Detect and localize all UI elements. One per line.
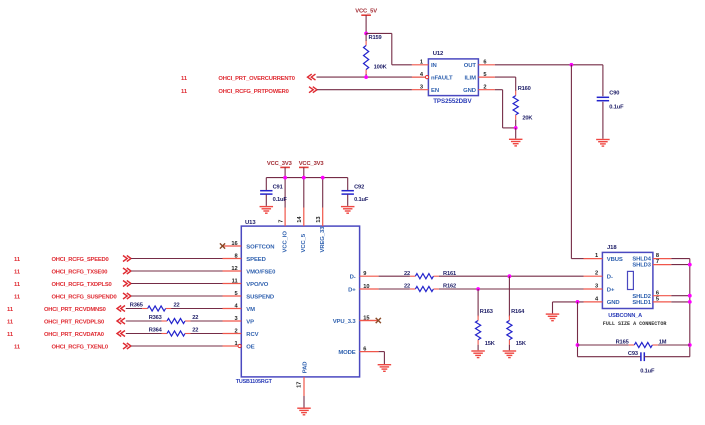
svg-text:R363: R363 (149, 315, 162, 321)
svg-text:10: 10 (363, 284, 369, 290)
svg-text:2: 2 (235, 329, 238, 335)
svg-text:11: 11 (14, 269, 21, 275)
svg-text:100K: 100K (374, 65, 388, 71)
svg-text:6: 6 (656, 290, 659, 296)
svg-text:FULL SIZE A CONNECTOR: FULL SIZE A CONNECTOR (603, 321, 668, 327)
svg-text:1: 1 (420, 60, 423, 66)
svg-text:5: 5 (656, 297, 659, 303)
svg-text:D-: D- (350, 275, 356, 281)
svg-text:5: 5 (235, 291, 238, 297)
svg-text:3: 3 (595, 283, 598, 289)
svg-text:U13: U13 (245, 220, 256, 226)
svg-text:22: 22 (404, 271, 410, 277)
svg-text:OE: OE (246, 344, 254, 350)
svg-text:12: 12 (231, 266, 237, 272)
svg-text:2: 2 (483, 85, 486, 91)
svg-text:11: 11 (14, 294, 21, 300)
svg-text:11: 11 (232, 279, 238, 285)
svg-text:OHCI_PRT_RCVDMNS0: OHCI_PRT_RCVDMNS0 (44, 307, 106, 313)
svg-text:15K: 15K (485, 341, 496, 347)
svg-text:11: 11 (7, 307, 14, 313)
svg-text:11: 11 (7, 319, 14, 325)
svg-text:OUT: OUT (464, 63, 477, 69)
svg-text:C91: C91 (273, 184, 283, 190)
svg-text:R162: R162 (443, 284, 456, 290)
svg-text:D+: D+ (348, 287, 356, 293)
svg-text:15K: 15K (516, 341, 527, 347)
svg-text:U12: U12 (433, 51, 444, 57)
svg-text:R164: R164 (511, 309, 525, 315)
svg-text:C93: C93 (628, 351, 638, 357)
svg-text:VREG_33: VREG_33 (320, 226, 326, 253)
svg-text:0.1uF: 0.1uF (640, 368, 655, 374)
svg-text:11: 11 (181, 89, 188, 95)
svg-text:VP: VP (246, 319, 254, 325)
svg-text:OHCI_RCFG_PRTPOWER0: OHCI_RCFG_PRTPOWER0 (218, 89, 288, 95)
svg-text:9: 9 (363, 271, 366, 277)
svg-text:22: 22 (174, 302, 180, 308)
svg-text:OHCI_RCFG_SUSPEND0: OHCI_RCFG_SUSPEND0 (52, 294, 117, 300)
svg-text:C92: C92 (354, 184, 364, 190)
svg-text:11: 11 (14, 344, 21, 350)
svg-text:nFAULT: nFAULT (431, 76, 453, 82)
svg-text:11: 11 (181, 76, 188, 82)
svg-text:ILIM: ILIM (465, 76, 477, 82)
svg-text:R364: R364 (149, 327, 163, 333)
svg-text:11: 11 (7, 332, 14, 338)
svg-text:VCC_IO: VCC_IO (282, 231, 288, 253)
svg-text:22: 22 (192, 327, 198, 333)
svg-text:TPS2552DBV: TPS2552DBV (433, 98, 472, 105)
svg-text:IN: IN (431, 63, 437, 69)
svg-text:0.1uF: 0.1uF (354, 197, 369, 203)
svg-text:J18: J18 (607, 245, 617, 251)
svg-text:2: 2 (595, 271, 598, 277)
svg-text:3: 3 (420, 85, 423, 91)
svg-text:20K: 20K (522, 116, 533, 122)
svg-text:OHCI_RCFG_TXDPLS0: OHCI_RCFG_TXDPLS0 (52, 282, 112, 288)
svg-text:R163: R163 (480, 309, 493, 315)
svg-text:VPO/VO: VPO/VO (246, 282, 269, 288)
svg-text:D+: D+ (607, 287, 615, 293)
svg-text:VM: VM (246, 307, 255, 313)
svg-text:SPEED: SPEED (246, 257, 265, 263)
svg-text:VCC_3V3: VCC_3V3 (267, 161, 293, 167)
svg-text:RCV: RCV (246, 332, 258, 338)
svg-text:OHCI_PRT_OVERCURRENT0: OHCI_PRT_OVERCURRENT0 (218, 76, 294, 82)
svg-text:OHCI_PRT_RCVDATA0: OHCI_PRT_RCVDATA0 (44, 332, 104, 338)
svg-text:3: 3 (235, 316, 238, 322)
svg-text:D-: D- (607, 275, 613, 281)
svg-text:6: 6 (483, 60, 486, 66)
svg-text:EN: EN (431, 88, 439, 94)
svg-text:8: 8 (235, 254, 238, 260)
svg-text:USBCONN_A: USBCONN_A (608, 313, 642, 319)
svg-text:VCC_3V3: VCC_3V3 (299, 161, 325, 167)
svg-text:R159: R159 (369, 35, 382, 41)
svg-text:TUSB1105RGT: TUSB1105RGT (236, 379, 273, 385)
svg-text:1: 1 (235, 341, 238, 347)
svg-text:R161: R161 (443, 271, 456, 277)
svg-text:0.1uF: 0.1uF (273, 197, 288, 203)
svg-text:7: 7 (656, 259, 659, 265)
svg-text:SHLD2: SHLD2 (632, 294, 651, 300)
svg-text:14: 14 (297, 216, 303, 223)
svg-text:C90: C90 (609, 90, 619, 96)
svg-text:SOFTCON: SOFTCON (246, 244, 274, 250)
svg-text:VMO/FSE0: VMO/FSE0 (246, 269, 276, 275)
svg-text:GND: GND (607, 300, 620, 306)
svg-text:OHCI_RCFG_TXSE00: OHCI_RCFG_TXSE00 (52, 269, 108, 275)
svg-text:GND: GND (463, 88, 476, 94)
svg-text:7: 7 (278, 220, 284, 223)
svg-text:MODE: MODE (338, 350, 355, 356)
svg-text:PAD: PAD (302, 362, 308, 374)
svg-text:22: 22 (404, 284, 410, 290)
svg-text:VBUS: VBUS (607, 257, 623, 263)
svg-text:OHCI_PRT_RCVDPLS0: OHCI_PRT_RCVDPLS0 (44, 319, 104, 325)
svg-text:OHCI_RCFG_SPEED0: OHCI_RCFG_SPEED0 (52, 257, 109, 263)
svg-text:11: 11 (14, 282, 21, 288)
svg-text:5: 5 (483, 72, 486, 78)
svg-text:R160: R160 (518, 86, 531, 92)
svg-text:SHLD1: SHLD1 (632, 300, 651, 306)
svg-text:16: 16 (231, 241, 237, 247)
svg-text:VCC_5V: VCC_5V (355, 9, 377, 15)
svg-text:13: 13 (316, 216, 322, 222)
svg-text:SHLD3: SHLD3 (632, 263, 651, 269)
svg-text:22: 22 (192, 315, 198, 321)
svg-text:11: 11 (14, 257, 21, 263)
svg-text:VCC_5: VCC_5 (301, 233, 307, 252)
svg-text:17: 17 (297, 382, 303, 388)
svg-text:6: 6 (363, 347, 366, 353)
svg-text:1: 1 (595, 253, 598, 259)
svg-text:1M: 1M (659, 340, 667, 346)
svg-text:R365: R365 (130, 302, 143, 308)
svg-text:R165: R165 (616, 340, 629, 346)
svg-text:SUSPEND: SUSPEND (246, 294, 274, 300)
svg-text:OHCI_RCFG_TXENL0: OHCI_RCFG_TXENL0 (52, 344, 108, 350)
svg-text:0.1uF: 0.1uF (609, 105, 624, 111)
svg-text:VPU_3.3: VPU_3.3 (333, 319, 357, 325)
